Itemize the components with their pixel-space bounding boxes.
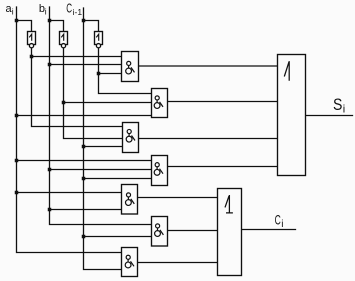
svg-text:i: i — [281, 219, 283, 230]
svg-text:i: i — [343, 104, 345, 116]
svg-text:i: i — [12, 7, 14, 17]
svg-text:C: C — [275, 212, 281, 228]
svg-text:i: i — [45, 7, 47, 17]
svg-text:C: C — [66, 2, 72, 16]
svg-text:i-1: i-1 — [73, 7, 83, 17]
svg-text:S: S — [333, 96, 342, 114]
